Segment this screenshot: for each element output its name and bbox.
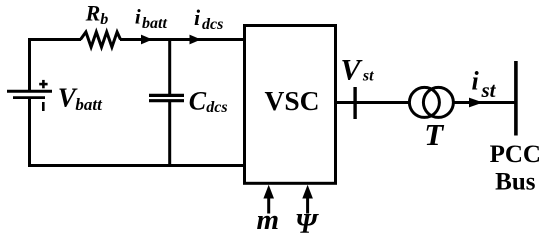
svg-text:V: V: [341, 53, 364, 86]
svg-text:dcs: dcs: [202, 16, 223, 33]
wire: top wire from resistor to VSC: [120, 38, 244, 41]
arrow input m: [267, 198, 270, 214]
arrowhead i_dcs: [190, 35, 202, 45]
wire: VSC output to transformer: [336, 101, 411, 104]
arrowhead i_st: [469, 98, 483, 108]
svg-text:i: i: [194, 5, 201, 30]
svg-text:Ψ: Ψ: [295, 209, 320, 239]
svg-text:R: R: [85, 1, 101, 26]
transformer T primary winding: [409, 87, 439, 117]
transformer T secondary winding: [423, 87, 453, 117]
svg-text:C: C: [189, 86, 207, 115]
svg-text:batt: batt: [142, 15, 167, 32]
wire: transformer to PCC bus: [453, 101, 516, 104]
wire: top wire from battery to resistor: [28, 38, 81, 41]
svg-text:dcs: dcs: [206, 99, 227, 116]
svg-text:i: i: [472, 67, 480, 96]
battery bottom vertical wire: [28, 98, 31, 167]
svg-text:T: T: [424, 117, 444, 152]
VSC converter box U1: [245, 26, 336, 184]
battery V_batt: top vertical wire: [28, 38, 31, 92]
svg-text:st: st: [362, 68, 374, 85]
svg-text:m: m: [257, 204, 280, 236]
capacitor C_dcs bottom plate: [149, 99, 184, 102]
PCC bus bar: [514, 61, 518, 136]
svg-text:Bus: Bus: [495, 169, 536, 196]
svg-text:st: st: [481, 78, 497, 102]
arrowhead i_batt: [141, 35, 153, 45]
arrow input psi: [306, 198, 309, 214]
svg-text:batt: batt: [75, 95, 103, 114]
battery short plate: [13, 96, 45, 99]
battery long plate: [7, 90, 52, 93]
battery plus sign: [39, 83, 47, 86]
svg-text:VSC: VSC: [264, 85, 319, 116]
svg-text:PCC: PCC: [490, 141, 541, 168]
wire: bottom wire: [28, 164, 244, 167]
wire: capacitor top branch: [168, 38, 171, 95]
battery minus mark: [42, 102, 45, 111]
capacitor C_dcs top plate: [149, 94, 184, 97]
svg-text:b: b: [100, 11, 108, 28]
wire: capacitor bottom branch: [168, 102, 171, 167]
svg-text:i: i: [135, 4, 141, 28]
resistor Rb zigzag: [81, 32, 121, 47]
node V_st tick: [353, 87, 356, 119]
